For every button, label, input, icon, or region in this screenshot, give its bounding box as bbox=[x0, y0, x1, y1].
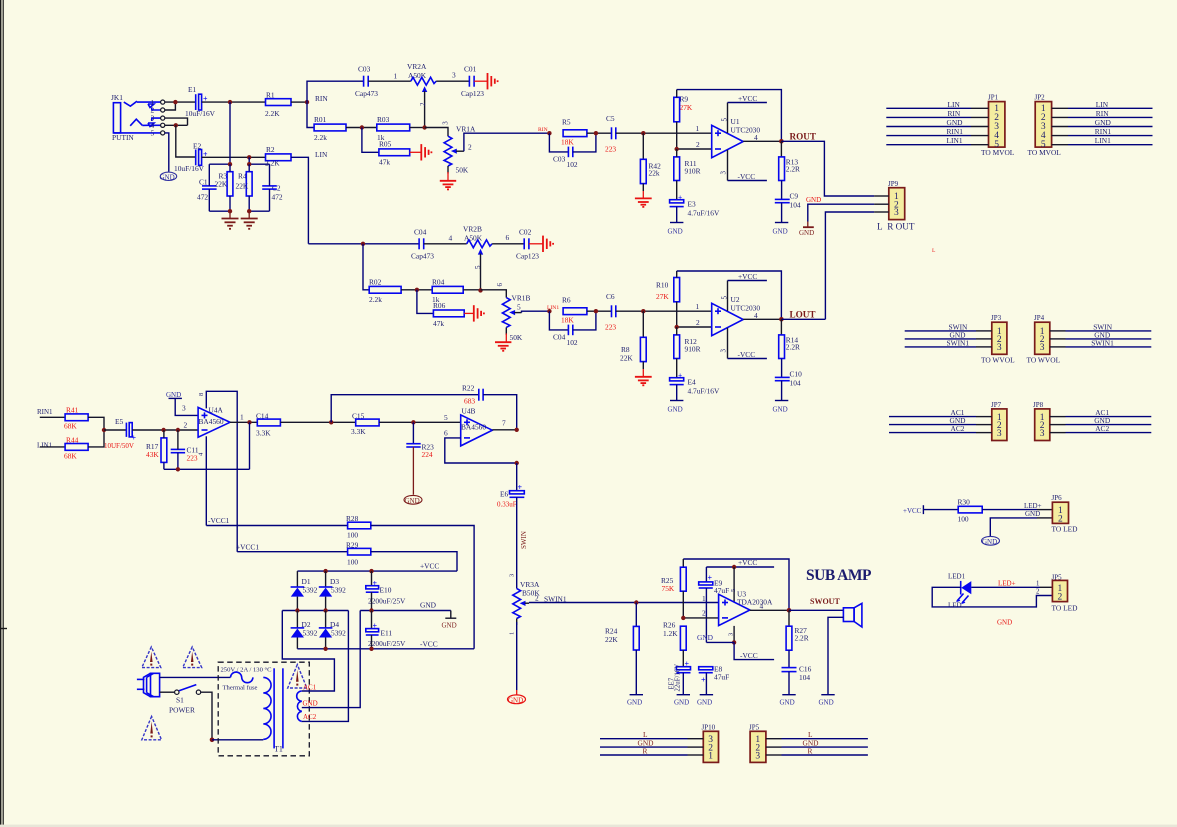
svg-text:683: 683 bbox=[464, 397, 475, 406]
svg-text:E6: E6 bbox=[500, 490, 509, 499]
GND port under C9 bbox=[773, 203, 789, 236]
svg-text:100: 100 bbox=[958, 515, 969, 524]
svg-text:-VCC: -VCC bbox=[740, 651, 758, 660]
svg-text:2: 2 bbox=[1058, 514, 1063, 524]
svg-text:RIN: RIN bbox=[1096, 109, 1109, 118]
svg-text:2.2R: 2.2R bbox=[786, 164, 800, 173]
wire C15 to U4B pin5 bbox=[379, 421, 461, 423]
wire pin3 jog down bbox=[165, 118, 188, 125]
svg-text:GND: GND bbox=[1025, 510, 1040, 518]
capacitor E10 2200uF/25V bbox=[366, 571, 406, 610]
resistor R8 22K bbox=[620, 311, 646, 369]
node dot at R3 column bbox=[228, 100, 232, 104]
wire JP9 pin3 from LOUT bbox=[825, 212, 874, 319]
JK1 ring contact check bbox=[130, 119, 142, 126]
sideways power ground after R06 bbox=[464, 305, 484, 321]
svg-text:2: 2 bbox=[696, 140, 700, 149]
svg-text:1: 1 bbox=[394, 72, 398, 81]
svg-text:C2: C2 bbox=[272, 184, 281, 193]
resistor R44 68K bbox=[64, 436, 88, 461]
svg-text:68K: 68K bbox=[64, 422, 77, 431]
connector JP6 bbox=[1052, 494, 1079, 533]
svg-text:5: 5 bbox=[151, 129, 155, 138]
svg-text:5392: 5392 bbox=[331, 585, 346, 594]
resistor R30 100 bbox=[958, 498, 983, 524]
transformer primary coil bbox=[263, 677, 271, 739]
wire pin4 node down to E2 bbox=[176, 125, 196, 157]
svg-text:S1: S1 bbox=[176, 696, 184, 705]
-VCC rail bbox=[297, 648, 474, 650]
warning triangle 4 (inside transformer) bbox=[288, 665, 307, 688]
svg-text:GND: GND bbox=[799, 229, 814, 237]
svg-text:JP10: JP10 bbox=[702, 724, 716, 732]
bottom rail of input RC bbox=[164, 468, 250, 470]
svg-text:ROUT: ROUT bbox=[790, 131, 817, 141]
wire E5 to U4A pin2 bbox=[132, 429, 198, 431]
wire RIN node down to R01 bbox=[307, 102, 314, 127]
svg-text:GND: GND bbox=[508, 696, 523, 704]
wire R02 to node bbox=[401, 289, 432, 291]
node dot pin3/4 bbox=[174, 123, 178, 127]
svg-text:2.2k: 2.2k bbox=[369, 295, 382, 304]
-VCC1 rail with R28 bbox=[206, 525, 347, 527]
wire pin1 to E1 bbox=[165, 101, 196, 103]
svg-text:JP4: JP4 bbox=[1034, 314, 1045, 322]
ground GND (red ring) under VR3A bbox=[508, 690, 526, 704]
capacitor E5 10UF/50V bbox=[104, 417, 137, 450]
svg-text:472: 472 bbox=[272, 193, 283, 202]
svg-text:4: 4 bbox=[754, 133, 758, 142]
wire U1 pin2 bbox=[677, 148, 712, 150]
svg-text:5392: 5392 bbox=[303, 629, 318, 638]
capacitor C9 104 bbox=[775, 192, 801, 210]
svg-text:JP2: JP2 bbox=[1035, 94, 1046, 102]
JK1 tip contact check bbox=[124, 101, 137, 106]
svg-text:27K: 27K bbox=[680, 103, 693, 112]
earth ground under R42 bbox=[642, 191, 644, 198]
svg-text:Cap473: Cap473 bbox=[411, 252, 434, 261]
svg-text:22K: 22K bbox=[215, 180, 228, 189]
loop top rail bbox=[249, 163, 269, 165]
resistor R42 22k bbox=[640, 133, 661, 191]
wire E1 to R1 bbox=[202, 101, 266, 103]
svg-text:T1: T1 bbox=[274, 745, 283, 754]
svg-text:3: 3 bbox=[509, 574, 516, 577]
svg-text:3: 3 bbox=[894, 208, 899, 218]
wire down to E6 bbox=[516, 463, 518, 491]
svg-text:TO LED: TO LED bbox=[1052, 604, 1079, 613]
svg-text:GND: GND bbox=[697, 633, 714, 642]
svg-text:4.7uF/16V: 4.7uF/16V bbox=[688, 386, 720, 395]
svg-text:GND: GND bbox=[947, 118, 964, 127]
svg-text:223: 223 bbox=[187, 453, 198, 462]
svg-text:BA4560: BA4560 bbox=[461, 423, 486, 432]
connector JP3 bbox=[981, 314, 1015, 364]
earth ground under R8 bbox=[642, 369, 644, 376]
resistor R04 1k bbox=[432, 277, 463, 304]
svg-text:1: 1 bbox=[696, 302, 700, 311]
wire RIN1 stub bbox=[40, 416, 65, 418]
svg-text:22k: 22k bbox=[649, 169, 660, 178]
svg-text:2: 2 bbox=[1058, 593, 1063, 603]
diode D3 5392 bbox=[319, 571, 346, 610]
potentiometer VR2B A50K bbox=[463, 225, 492, 291]
wire VR3A down to ground bbox=[516, 622, 518, 690]
JP1 net labels bbox=[947, 100, 964, 145]
JP2 net labels bbox=[1095, 100, 1112, 145]
GND rail segment to ground tick bbox=[360, 610, 451, 612]
svg-text:5: 5 bbox=[517, 302, 521, 311]
resistor R41 68K bbox=[64, 406, 88, 431]
earth ground under VR1A bbox=[440, 172, 456, 189]
svg-text:E5: E5 bbox=[115, 417, 124, 426]
svg-text:1: 1 bbox=[702, 594, 706, 603]
svg-text:SWIN1: SWIN1 bbox=[947, 338, 970, 347]
svg-text:C6: C6 bbox=[606, 292, 615, 301]
svg-text:3: 3 bbox=[1040, 343, 1045, 353]
feedback top rail to output bbox=[677, 90, 782, 142]
svg-text:0.33uF: 0.33uF bbox=[497, 501, 517, 509]
wire JP6 pin2 to ground bbox=[1037, 517, 1052, 519]
capacitor C6 223 bbox=[605, 292, 616, 331]
connector JP2 bbox=[1028, 94, 1062, 158]
svg-text:TO WVOL: TO WVOL bbox=[981, 356, 1015, 365]
svg-text:VR2A: VR2A bbox=[407, 62, 427, 71]
svg-text:R03: R03 bbox=[377, 115, 390, 124]
GND port under C10 bbox=[773, 381, 789, 414]
ground under R4 bbox=[248, 211, 250, 218]
svg-text:2.2R: 2.2R bbox=[786, 342, 800, 351]
ground tick bbox=[442, 611, 457, 630]
svg-text:2: 2 bbox=[696, 318, 700, 327]
svg-text:GND: GND bbox=[773, 228, 788, 236]
svg-text:GND: GND bbox=[1095, 118, 1112, 127]
connector JP5 (right) bbox=[1052, 573, 1079, 612]
node dot E2/R4 column bbox=[247, 155, 251, 159]
feedback loop R22 683 bbox=[331, 384, 517, 430]
capacitor E8 47uF bbox=[699, 665, 730, 695]
svg-text:GND: GND bbox=[405, 497, 420, 505]
potentiometer VR3A B50K bbox=[509, 580, 567, 635]
svg-text:R06: R06 bbox=[433, 301, 446, 310]
capacitor E9 47uF bbox=[699, 567, 730, 642]
capacitor C02 Cap123 bbox=[516, 228, 539, 261]
joining wire R41/R44 to E5 bbox=[88, 417, 104, 447]
node LOUT dot bbox=[779, 317, 784, 322]
secondary tap AC2 wire bbox=[302, 611, 349, 722]
svg-text:GND: GND bbox=[780, 699, 795, 707]
svg-text:6: 6 bbox=[444, 429, 448, 438]
wire LED1 anode to JP5 pin1 bbox=[971, 586, 1040, 588]
svg-text:2: 2 bbox=[419, 102, 427, 106]
svg-text:LED: LED bbox=[948, 602, 962, 610]
wire VR1B wiper to R6 node bbox=[522, 311, 550, 312]
wire LIN1 stub bbox=[40, 446, 65, 448]
U3 -VCC bracket bbox=[734, 642, 774, 659]
resistor C15 3.3K bbox=[351, 412, 379, 437]
U2 power pin 5 bracket +VCC bbox=[721, 272, 767, 311]
potentiometer VR1A 50K bbox=[444, 125, 476, 175]
wire node A down through R3 loop bbox=[229, 102, 231, 164]
svg-text:47uF: 47uF bbox=[714, 586, 729, 595]
riser from E2 wire bbox=[248, 157, 250, 164]
resistor R29 100 bbox=[346, 540, 371, 566]
wire JP9 pin2 to ground bbox=[808, 204, 874, 221]
op-amp U4B BA4560 bbox=[461, 407, 493, 446]
resistor R26 1.2K bbox=[663, 621, 686, 667]
switch S1 POWER bbox=[169, 685, 201, 715]
svg-text:JP3: JP3 bbox=[991, 314, 1002, 322]
svg-text:R10: R10 bbox=[656, 281, 669, 290]
U2 power pin 3 bracket -VCC bbox=[720, 328, 767, 359]
wire C14 to C15 bbox=[280, 421, 355, 423]
wire U2 pin2 bbox=[677, 326, 712, 328]
svg-text:R30: R30 bbox=[958, 498, 971, 507]
svg-text:5392: 5392 bbox=[331, 629, 346, 638]
wire to speaker bbox=[789, 609, 843, 611]
wire R04 to VR2B wiper node bbox=[463, 289, 480, 291]
GND port under E7 bbox=[674, 695, 690, 707]
capacitor C04 Cap473 bbox=[411, 228, 434, 261]
svg-text:2.2R: 2.2R bbox=[795, 634, 809, 643]
resistor R1 2.2K bbox=[265, 91, 291, 119]
diode D1 5392 bbox=[291, 571, 318, 610]
wire VR2A to C01, pin 3 bbox=[436, 80, 469, 82]
branch to R05 bbox=[362, 128, 379, 153]
svg-text:50K: 50K bbox=[510, 333, 523, 342]
node dot R5 left bbox=[547, 131, 551, 135]
svg-text:3: 3 bbox=[1040, 429, 1045, 439]
svg-text:104: 104 bbox=[799, 673, 810, 682]
svg-text:E10: E10 bbox=[380, 586, 392, 595]
svg-text:3: 3 bbox=[728, 633, 735, 636]
svg-text:U4A: U4A bbox=[209, 406, 224, 415]
svg-text:E1: E1 bbox=[188, 85, 197, 94]
svg-text:TO MVOL: TO MVOL bbox=[1028, 148, 1062, 157]
svg-text:R05: R05 bbox=[379, 140, 392, 149]
GND port above U4A pin3 bbox=[166, 391, 198, 415]
svg-text:LED+: LED+ bbox=[998, 579, 1016, 587]
svg-text:50K: 50K bbox=[456, 166, 469, 175]
svg-text:E11: E11 bbox=[381, 629, 393, 638]
svg-text:102: 102 bbox=[567, 160, 578, 169]
svg-text:4.7uF/16V: 4.7uF/16V bbox=[688, 208, 720, 217]
svg-text:AC2: AC2 bbox=[951, 424, 965, 433]
svg-text:VR1A: VR1A bbox=[456, 125, 476, 134]
svg-text:910R: 910R bbox=[685, 344, 701, 353]
resistor C14 3.3K bbox=[256, 412, 280, 438]
svg-text:C01: C01 bbox=[464, 65, 477, 74]
svg-text:BA4560: BA4560 bbox=[199, 417, 224, 426]
svg-text:SWIN: SWIN bbox=[520, 531, 528, 549]
wire R5 to C5 bbox=[587, 132, 611, 134]
svg-text:2: 2 bbox=[184, 421, 188, 430]
GND port under C16 bbox=[780, 695, 796, 707]
ground under R3 bbox=[229, 211, 231, 218]
svg-text:8: 8 bbox=[198, 393, 205, 396]
op-amp U2 UTC2030 bbox=[712, 295, 761, 336]
svg-text:1: 1 bbox=[708, 751, 713, 761]
svg-text:LIN: LIN bbox=[948, 100, 961, 109]
wire C04 to VR2B, pin 4 bbox=[424, 243, 467, 245]
svg-text:R5: R5 bbox=[562, 118, 571, 127]
wire node to VR1B top, pin 6 bbox=[481, 290, 507, 298]
capacitor E7 22uF/16V bbox=[669, 660, 691, 695]
port +VCC bbox=[903, 505, 923, 515]
potentiometer VR1B 50K bbox=[502, 294, 530, 343]
resistor R01 2.2k bbox=[314, 115, 346, 142]
svg-text:TDA2030A: TDA2030A bbox=[737, 598, 773, 607]
svg-text:4: 4 bbox=[449, 234, 453, 243]
parallel cap C03 102 loop under R5 bbox=[549, 133, 596, 169]
wire LOUT to JP9 pin3 riser bbox=[781, 318, 825, 320]
U4B output pin 7 bbox=[492, 429, 516, 431]
svg-text:R: R bbox=[808, 746, 813, 755]
sheet left border bbox=[0, 0, 1, 827]
wire C6 to U2 pin1 bbox=[616, 310, 712, 312]
svg-text:1: 1 bbox=[240, 412, 244, 421]
speaker return wire to ground bbox=[828, 617, 843, 694]
svg-text:LIN1: LIN1 bbox=[37, 442, 53, 450]
wire VR1A wiper to R5 node bbox=[464, 133, 550, 151]
GND port under E3 bbox=[668, 207, 684, 236]
svg-text:+: + bbox=[701, 676, 706, 685]
svg-text:RIN: RIN bbox=[948, 109, 961, 118]
svg-text:7: 7 bbox=[502, 418, 506, 427]
warning triangle 2 bbox=[183, 647, 202, 668]
warning triangle 3 bbox=[142, 716, 162, 739]
svg-text:1: 1 bbox=[509, 632, 516, 635]
U3 +VCC bracket bbox=[706, 558, 774, 602]
svg-text:RIN: RIN bbox=[315, 94, 328, 103]
svg-text:VR1B: VR1B bbox=[512, 294, 531, 303]
capacitor E2 10uF/16V bbox=[174, 142, 208, 174]
svg-text:SUB AMP: SUB AMP bbox=[806, 567, 872, 584]
U4B pin6 loop bbox=[444, 429, 519, 466]
svg-text:47k: 47k bbox=[379, 157, 390, 166]
rail R28 to -VCC corner bbox=[371, 526, 474, 649]
svg-text:JK1: JK1 bbox=[111, 93, 123, 102]
transformer core bbox=[273, 668, 275, 748]
wire R1 to RIN node bbox=[291, 101, 307, 103]
node dot R6 left bbox=[547, 309, 551, 313]
svg-text:JP9: JP9 bbox=[888, 180, 899, 188]
thermal fuse bbox=[223, 672, 258, 691]
svg-text:68K: 68K bbox=[64, 452, 77, 461]
U1 power pin 3 bracket -VCC bbox=[720, 150, 767, 181]
JP2 pin stubs bbox=[1052, 108, 1068, 144]
GND port under E4 bbox=[668, 385, 684, 414]
svg-text:104: 104 bbox=[790, 378, 801, 387]
svg-text:910R: 910R bbox=[685, 166, 701, 175]
svg-text:-VCC: -VCC bbox=[420, 640, 438, 649]
svg-text:E3: E3 bbox=[688, 200, 697, 209]
wire VR2B to C02, pin 6 bbox=[492, 243, 524, 245]
JP1 wires bbox=[886, 108, 971, 144]
connector JP1 bbox=[981, 94, 1015, 158]
svg-text:+VCC: +VCC bbox=[903, 507, 922, 515]
capacitor E4 4.7uF/16V bbox=[670, 371, 720, 396]
resistor R11 910R bbox=[674, 149, 701, 199]
connector JP9 bbox=[888, 180, 905, 220]
svg-text:GND: GND bbox=[819, 699, 834, 707]
wire C03 to VR2A, pin 1 bbox=[368, 80, 411, 82]
svg-text:LIN1: LIN1 bbox=[1095, 136, 1111, 145]
svg-text:2.2K: 2.2K bbox=[265, 109, 280, 118]
svg-text:6: 6 bbox=[496, 283, 504, 287]
svg-text:5: 5 bbox=[444, 413, 448, 422]
svg-text:R2: R2 bbox=[266, 145, 275, 154]
wire node to VR1A top, pin 3 bbox=[425, 128, 448, 137]
branch down to R02 bbox=[363, 244, 369, 290]
wire ROUT to JP9 pin1 bbox=[781, 141, 874, 196]
svg-text:U4B: U4B bbox=[462, 407, 476, 416]
svg-text:1: 1 bbox=[696, 124, 700, 133]
diode D2 5392 bbox=[291, 611, 318, 649]
svg-text:2.2k: 2.2k bbox=[314, 133, 327, 142]
capacitor C16 104 bbox=[782, 665, 812, 695]
resistor R28 100 bbox=[346, 514, 371, 540]
svg-text:3: 3 bbox=[720, 349, 728, 353]
svg-text:Cap123: Cap123 bbox=[461, 89, 484, 98]
mains plug bbox=[137, 673, 160, 696]
wire plug to fuse bbox=[160, 676, 231, 678]
op-amp U3 TDA2030A bbox=[719, 590, 773, 626]
svg-text:Cap123: Cap123 bbox=[516, 252, 539, 261]
resistor R10 27K bbox=[656, 271, 680, 327]
svg-text:R04: R04 bbox=[432, 277, 445, 286]
svg-text:JP1: JP1 bbox=[988, 94, 999, 102]
potentiometer VR2A A50K bbox=[407, 62, 436, 128]
svg-text:RIN: RIN bbox=[538, 127, 548, 133]
svg-text:A50K: A50K bbox=[408, 71, 427, 80]
capacitor C11 223 bbox=[171, 430, 199, 469]
svg-text:223: 223 bbox=[605, 322, 616, 331]
parallel loop R4/C2 bbox=[236, 157, 283, 229]
connector JP4 bbox=[1027, 314, 1061, 364]
svg-text:C02: C02 bbox=[519, 228, 532, 237]
svg-text:E4: E4 bbox=[688, 378, 697, 387]
svg-text:SWIN1: SWIN1 bbox=[1091, 338, 1114, 347]
speaker bbox=[843, 603, 862, 627]
JP9 pin stubs bbox=[874, 196, 889, 212]
connector JP7 bbox=[991, 401, 1007, 441]
rail R29 to +VCC corner bbox=[371, 552, 457, 571]
svg-text:AC2: AC2 bbox=[1095, 424, 1109, 433]
+VCC1 rail with R29 bbox=[237, 551, 347, 553]
wire +VCC to R30 bbox=[923, 509, 958, 511]
sideways power ground after C01 bbox=[474, 73, 498, 89]
svg-text:102: 102 bbox=[567, 338, 578, 347]
capacitor E6 0.33uF bbox=[497, 483, 524, 509]
svg-text:L: L bbox=[932, 248, 936, 254]
svg-text:104: 104 bbox=[790, 200, 801, 209]
wire R03 to VR1A node bbox=[410, 127, 425, 129]
svg-text:GND: GND bbox=[160, 173, 175, 181]
svg-text:LOUT: LOUT bbox=[790, 309, 816, 319]
sideways power ground after C02 bbox=[529, 236, 553, 252]
svg-text:27K: 27K bbox=[656, 292, 669, 301]
svg-text:PUTIN: PUTIN bbox=[112, 133, 134, 142]
ground GND port of jack bbox=[160, 133, 177, 181]
svg-text:75K: 75K bbox=[662, 584, 675, 593]
diode D4 5392 bbox=[319, 611, 346, 649]
resistor R2 2.2K bbox=[265, 145, 291, 168]
sideways power ground after R05 bbox=[410, 144, 432, 160]
feedback top rail to output (ch2) bbox=[677, 271, 782, 319]
svg-text:5: 5 bbox=[474, 265, 482, 269]
svg-text:GND: GND bbox=[420, 601, 437, 610]
